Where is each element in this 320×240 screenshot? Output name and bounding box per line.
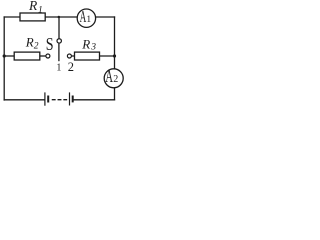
wire top left — [4, 16, 20, 18]
node junction on R1-A1 wire — [58, 16, 61, 19]
node junction right rail — [113, 54, 116, 57]
wire middle left — [4, 55, 14, 57]
svg-text:R: R — [25, 34, 34, 49]
wire pole branch — [58, 17, 60, 38]
svg-text:S: S — [46, 36, 54, 55]
battery cell 1 long plate — [44, 92, 46, 105]
svg-text:1: 1 — [56, 63, 61, 74]
wire A2 to bottom-right corner — [114, 88, 116, 100]
svg-text:1: 1 — [38, 5, 43, 15]
switch contact 2 — [67, 54, 71, 58]
wire battery dashed link — [52, 99, 66, 101]
wire right rail upper — [114, 17, 116, 69]
wire bottom left — [4, 99, 44, 101]
switch S pole contact — [57, 39, 61, 43]
node junction left rail — [3, 54, 6, 57]
svg-text:3: 3 — [90, 42, 96, 52]
svg-text:A: A — [105, 67, 113, 87]
svg-text:2: 2 — [68, 60, 74, 74]
resistor R3 — [75, 52, 100, 60]
wire R1 to A1 — [45, 16, 77, 18]
battery cell 2 long plate — [69, 92, 71, 105]
wire R2 to contact 1 — [40, 55, 46, 57]
svg-text:2: 2 — [113, 74, 118, 85]
switch contact 1 — [46, 54, 50, 58]
wire contact 2 to R3 — [71, 55, 74, 57]
svg-text:2: 2 — [34, 41, 39, 51]
svg-text:R: R — [81, 36, 90, 51]
resistor R1 — [20, 13, 45, 21]
battery cell 2 short plate — [72, 96, 74, 103]
svg-text:R: R — [28, 0, 38, 13]
wire left rail — [3, 17, 5, 100]
battery cell 1 short plate — [47, 96, 49, 103]
ammeter A1 — [77, 7, 95, 27]
switch S blade — [58, 44, 60, 62]
ammeter A2 — [104, 67, 123, 87]
resistor R2 — [14, 52, 40, 60]
wire A1 to top-right corner — [95, 16, 115, 18]
wire R3 to right rail — [100, 55, 115, 57]
wire bottom right — [74, 99, 115, 101]
svg-text:1: 1 — [86, 15, 91, 25]
